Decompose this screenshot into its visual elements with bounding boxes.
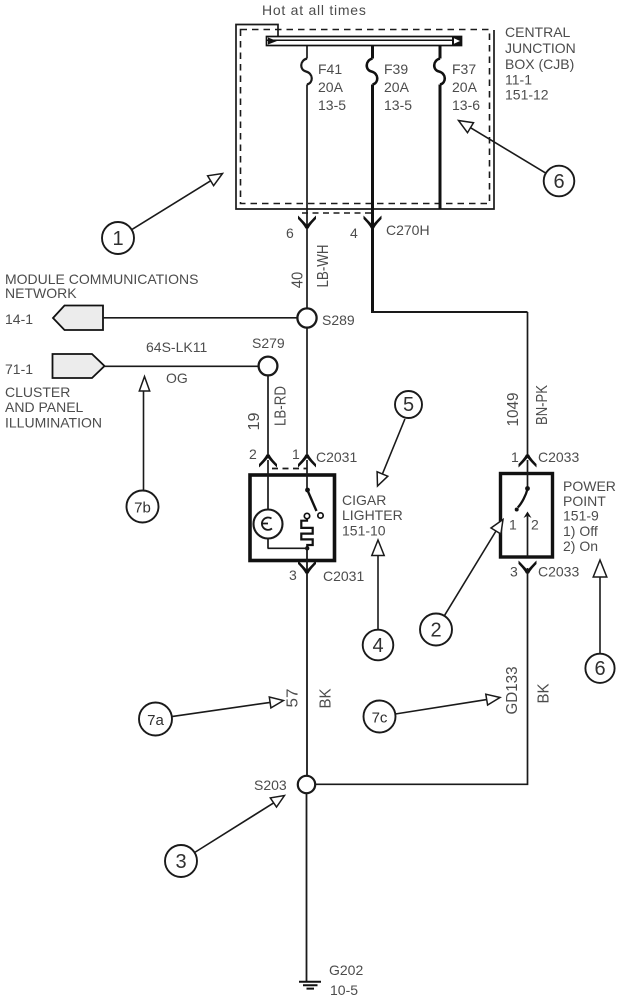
callout 7c arrow	[395, 700, 486, 714]
svg-text:2: 2	[531, 517, 539, 533]
svg-text:BK: BK	[318, 688, 335, 708]
svg-text:6: 6	[553, 171, 564, 193]
svg-text:C2031: C2031	[316, 449, 357, 465]
power point pin 1 arrow	[519, 455, 537, 468]
svg-text:GD133: GD133	[504, 666, 521, 714]
svg-text:20A: 20A	[452, 79, 478, 95]
cigar lighter connector pins: pin 2 arrow	[259, 455, 277, 468]
label: F37 20A 13-6	[452, 61, 480, 113]
svg-text:OG: OG	[166, 370, 188, 386]
fuse F39	[367, 59, 378, 85]
svg-text:7c: 7c	[372, 710, 388, 727]
svg-text:S279: S279	[252, 335, 285, 351]
connector C270H dashed line	[302, 212, 373, 214]
svg-text:LB-RD: LB-RD	[273, 386, 290, 426]
label: CENTRAL JUNCTION BOX (CJB) 11-1 151-12	[505, 24, 576, 103]
connector arrow to module communications network	[53, 306, 103, 331]
svg-text:151-12: 151-12	[505, 87, 549, 103]
svg-text:4: 4	[372, 635, 383, 657]
svg-text:2: 2	[430, 620, 441, 642]
svg-text:11-1: 11-1	[505, 72, 532, 88]
wire 64S-LK11 OG	[105, 365, 259, 367]
svg-text:C2033: C2033	[538, 449, 579, 465]
wire lamp to element bottom	[268, 547, 308, 549]
switch pivot dot	[525, 486, 530, 491]
fuse F41	[301, 59, 312, 85]
wire pin1 into switch	[306, 460, 308, 490]
callout circle 3	[165, 845, 197, 877]
svg-text:C270H: C270H	[386, 222, 430, 238]
callout 2 arrow	[444, 531, 496, 616]
callout 3 arrow	[195, 802, 276, 853]
label: F41 20A 13-5	[318, 61, 346, 113]
svg-text:1: 1	[292, 446, 300, 462]
callout 5 arrow	[382, 419, 405, 474]
svg-text:20A: 20A	[318, 79, 344, 95]
label: F39 20A 13-5	[384, 61, 412, 113]
junction dot	[305, 546, 309, 550]
callout circle 7a	[139, 703, 172, 736]
svg-text:POWER: POWER	[563, 478, 616, 494]
fuse F37	[434, 59, 445, 85]
label: CLUSTER AND PANEL ILLUMINATION	[5, 384, 102, 431]
callout circle 6 right	[585, 654, 614, 683]
central junction box solid outline	[236, 25, 494, 210]
svg-text:C2033: C2033	[538, 564, 579, 580]
wire pin 3 out of box	[306, 548, 308, 776]
wire F37 vertical thick	[439, 46, 442, 209]
svg-text:F41: F41	[318, 61, 342, 77]
connector arrow from cluster and panel illumination	[53, 354, 105, 378]
svg-text:S203: S203	[254, 777, 287, 793]
wire S279 to cigar lighter pin 2	[267, 376, 269, 458]
svg-text:19: 19	[246, 412, 263, 430]
heating element	[301, 519, 312, 549]
cigar lighter box	[250, 475, 335, 561]
switch blade curve	[518, 489, 528, 508]
wire F41 vertical	[306, 46, 308, 308]
label: CIGAR LIGHTER 151-10	[342, 492, 403, 539]
wire F39 horizontal to power point	[371, 311, 528, 313]
pin 3 arrow (down)	[298, 561, 316, 574]
svg-text:BK: BK	[536, 683, 553, 703]
connector C2031 dashed line	[272, 468, 307, 470]
svg-text:BOX (CJB): BOX (CJB)	[505, 56, 574, 72]
svg-text:2) On: 2) On	[563, 538, 598, 554]
callout circle 1	[102, 222, 134, 254]
svg-text:3: 3	[289, 567, 297, 583]
bus bar (hot feed)	[267, 37, 462, 46]
callout circle 2	[420, 614, 452, 646]
splice S289	[297, 308, 316, 327]
svg-text:20A: 20A	[384, 79, 410, 95]
svg-text:7a: 7a	[147, 712, 164, 729]
svg-text:F39: F39	[384, 61, 408, 77]
callout 4 arrow	[377, 556, 379, 631]
pin 1 arrow	[298, 455, 316, 468]
callout 6 arrow	[471, 128, 547, 174]
svg-text:F37: F37	[452, 61, 476, 77]
svg-text:57: 57	[285, 688, 302, 707]
wire pin 1 into box	[527, 460, 529, 488]
callout circle 7c	[364, 701, 396, 733]
callout 7b arrow	[143, 391, 145, 491]
svg-text:7b: 7b	[134, 500, 151, 517]
svg-text:4: 4	[350, 225, 358, 241]
svg-text:3: 3	[510, 564, 518, 580]
svg-text:ILLUMINATION: ILLUMINATION	[5, 415, 102, 431]
wire contact 2 down	[527, 516, 529, 557]
central junction box dashed outline	[241, 30, 490, 204]
label: POWER POINT 151-9 1) Off 2) On	[563, 478, 616, 554]
wire from connector to S289	[103, 317, 298, 319]
switch contact circles	[318, 513, 323, 518]
svg-text:3: 3	[175, 851, 186, 873]
svg-text:10-5: 10-5	[330, 982, 358, 998]
svg-text:S289: S289	[322, 312, 355, 328]
svg-text:40: 40	[290, 272, 307, 289]
callout 1 arrow	[132, 181, 211, 230]
svg-text:151-10: 151-10	[342, 523, 386, 539]
contact 2 arrow	[524, 512, 532, 519]
wire S203 to ground	[306, 793, 308, 981]
wire S289 to cigar lighter pin 1	[306, 328, 308, 458]
label: MODULE COMMUNICATIONS NETWORK 14-1	[5, 271, 198, 327]
connector pin 6 arrow	[298, 216, 316, 229]
callout 7a arrow	[172, 702, 270, 716]
cigar lighter lamp element circle	[254, 510, 283, 539]
svg-text:6: 6	[286, 225, 294, 241]
svg-text:CIGAR: CIGAR	[342, 492, 386, 508]
svg-text:2: 2	[249, 446, 257, 462]
callout circle 5	[395, 391, 422, 418]
wire F39 vertical thick	[371, 46, 374, 312]
svg-text:CENTRAL: CENTRAL	[505, 24, 571, 40]
svg-text:CLUSTER: CLUSTER	[5, 384, 70, 400]
svg-text:JUNCTION: JUNCTION	[505, 40, 576, 56]
svg-text:151-9: 151-9	[563, 508, 599, 524]
ground G202	[299, 982, 321, 989]
callout 6 right arrow	[599, 577, 601, 654]
svg-text:13-5: 13-5	[384, 97, 412, 113]
svg-text:64S-LK11: 64S-LK11	[146, 339, 207, 355]
svg-text:LB-WH: LB-WH	[315, 245, 332, 288]
svg-text:1: 1	[509, 517, 517, 533]
svg-text:5: 5	[403, 394, 414, 416]
connector pin 4 arrow	[364, 216, 382, 229]
svg-text:C2031: C2031	[323, 568, 364, 584]
power point box	[501, 474, 553, 558]
svg-text:1) Off: 1) Off	[563, 523, 598, 539]
svg-text:AND PANEL: AND PANEL	[5, 399, 84, 415]
callout circle 4	[363, 630, 394, 661]
svg-text:BN-PK: BN-PK	[534, 385, 551, 425]
power point pin 3 arrow	[519, 561, 537, 574]
svg-text:13-5: 13-5	[318, 97, 346, 113]
svg-text:6: 6	[594, 658, 605, 680]
wire down right side to power point pin 1	[527, 312, 529, 457]
callout circle 6 top	[544, 166, 575, 197]
svg-text:LIGHTER: LIGHTER	[342, 507, 403, 523]
svg-text:13-6: 13-6	[452, 97, 480, 113]
wire pin2 into lamp	[267, 460, 269, 548]
svg-text:G202: G202	[329, 962, 363, 978]
svg-text:NETWORK: NETWORK	[5, 285, 77, 301]
splice S203	[298, 776, 315, 793]
wire power point pin 3 down to S203	[316, 568, 528, 784]
svg-text:Hot at all times: Hot at all times	[262, 2, 367, 18]
splice S279	[259, 357, 278, 376]
svg-text:71-1: 71-1	[5, 361, 33, 377]
switch blade	[305, 488, 310, 493]
svg-text:1: 1	[511, 449, 519, 465]
svg-text:1: 1	[112, 228, 123, 250]
svg-text:1049: 1049	[505, 392, 522, 426]
svg-text:14-1: 14-1	[5, 311, 33, 327]
callout circle 7b	[127, 491, 159, 523]
